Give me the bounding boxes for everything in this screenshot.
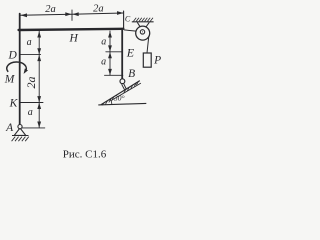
- svg-text:K: K: [9, 98, 19, 110]
- svg-text:P: P: [153, 55, 161, 67]
- svg-text:D: D: [7, 49, 17, 61]
- svg-text:a: a: [27, 37, 32, 48]
- svg-text:2a: 2a: [45, 4, 56, 15]
- svg-text:Рис. С1.6: Рис. С1.6: [63, 149, 107, 161]
- svg-text:H: H: [68, 33, 78, 45]
- svg-text:E: E: [126, 45, 135, 59]
- svg-text:2a: 2a: [24, 77, 38, 89]
- svg-text:a: a: [101, 37, 106, 48]
- svg-text:30°: 30°: [113, 94, 125, 103]
- svg-text:M: M: [4, 74, 16, 86]
- svg-text:2a: 2a: [93, 4, 104, 15]
- svg-text:C: C: [125, 14, 131, 23]
- svg-text:A: A: [5, 122, 14, 134]
- svg-text:B: B: [128, 68, 135, 80]
- svg-text:a: a: [28, 107, 33, 118]
- svg-text:a: a: [101, 57, 106, 68]
